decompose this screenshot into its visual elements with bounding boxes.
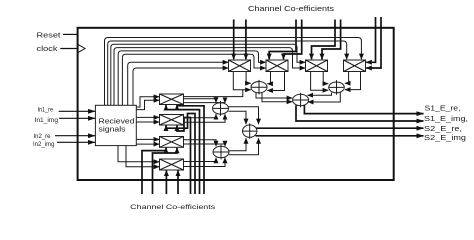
outer enclosure box [78,28,394,180]
svg-text:Channel Co-efficients: Channel Co-efficients [130,204,216,211]
svg-text:Channel Co-efficients: Channel Co-efficients [248,4,334,13]
wire A2 out a to A3 [308,93,332,96]
clock input triangle [78,45,85,53]
bottom coefficient riser to M8 a [165,170,167,194]
wire M3 out b to A2 [323,72,328,84]
coefficient drop wire h11a [233,20,235,60]
wire M4 out b to A2 [345,72,361,90]
wire A4 out a to A6 [229,107,259,124]
wire received to M8 b [126,146,159,167]
input wire In1_re [59,110,95,112]
coefficient drop wire h12b [284,20,302,60]
wire clock [60,48,77,50]
multiplier M2 [266,60,288,72]
svg-text:In2_re: In2_re [34,133,51,140]
wire M5 out to A1 junction [184,90,243,97]
adder A2 [329,80,345,95]
wire A2 out b to A3 [308,93,340,102]
bottom coefficient riser to M7 a [142,148,166,194]
input wire In2_re [55,135,95,137]
svg-text:signals: signals [99,127,127,134]
wire received to M6 a [136,116,159,118]
wire M1 out a to A1 [233,72,250,90]
coefficient drop wire h22b [366,17,381,68]
svg-text:clock: clock [37,46,59,53]
wire received to M8 a [118,146,159,162]
bottom coefficient riser to M7 b [153,148,178,194]
wire M5 out a to A4 [184,99,217,103]
multiplier M7 [160,137,184,148]
received-signal bus wire n5 [118,51,266,105]
wire M3 out a to A2 [311,72,329,91]
bottom coefficient riser to M6 b [166,114,195,195]
multiplier M1 [229,60,251,72]
adder A6 [243,123,257,138]
wire M2 out a to A1 [267,72,270,84]
block Received signals [95,105,136,145]
coefficient drop wire h11b [245,20,247,60]
received-signal bus wire n6 [122,54,265,105]
svg-text:In1_img: In1_img [35,117,59,124]
svg-text:In1_re: In1_re [38,107,54,114]
svg-text:S2_E_img: S2_E_img [424,135,466,142]
adder A4 [213,101,229,116]
wire Reset [63,33,78,35]
adder A3 [293,93,309,108]
wire M4 out a to A2 [345,72,349,84]
svg-text:Recieved: Recieved [99,118,135,125]
wire received to M5 b [136,100,159,109]
wire received to M7 a [136,138,159,140]
wire M6 out a to A4 [184,114,217,118]
output wire S2_E_re [256,127,424,129]
wire received to M6 b [136,121,159,123]
wire M7 out b to A5 [184,144,226,146]
wire M2 out b to A1 [267,72,284,91]
multiplier M5 [160,94,184,105]
adder A5 [213,145,229,160]
wire M8 out a to A5 [184,158,217,162]
received-signal bus wire n4 [114,48,305,106]
wire M5 out b to A4 [184,102,226,104]
wire A5 out a to A6 [229,138,246,151]
bottom coefficient riser to M6 a [177,118,191,195]
wire M1 out b to A1 [246,72,251,84]
wire A1 out b to A3 [262,92,292,102]
output wire S2_E_img [256,135,424,137]
svg-text:Reset: Reset [37,33,61,40]
output wire S1_E_re [304,105,423,113]
multiplier M4 [344,60,366,72]
received-signal bus wire n1 [105,38,362,106]
wire M8 out b to A5 [184,158,226,167]
wire A4 out b to A6 [229,111,247,124]
received-signal bus wire n3 [111,44,305,105]
input wire In1_img [59,117,95,119]
coefficient drop wire h22a [366,17,375,62]
coefficient drop wire h12a [269,20,296,60]
bottom coefficient riser to M8 b [177,170,179,194]
wire M7 out a to A5 [184,140,217,147]
svg-text:S1_E_re,: S1_E_re, [425,105,461,112]
received-signal bus wire n8 [133,68,228,105]
coefficient drop wire h21b [322,20,341,60]
received-signal bus wire n7 [128,62,229,105]
input wire In2_img [57,141,95,143]
bottom coefficient riser to M5 b [177,105,204,194]
bottom coefficient riser to M5 a [166,105,200,194]
coefficient drop wire h21a [312,20,336,60]
adder A1 [251,80,267,95]
wire A5 out b to A6 [229,138,259,155]
multiplier M6 [160,115,184,126]
multiplier M8 [160,159,184,170]
wire received to M7 b [136,143,159,145]
svg-text:S2_E_re,: S2_E_re, [424,126,462,133]
multiplier M3 [306,60,328,72]
output wire S1_E_img [296,105,424,121]
wire M6 out b to A4 [184,114,226,122]
svg-text:S1_E_img,: S1_E_img, [424,116,468,123]
received-signal bus wire n2 [108,41,347,105]
wire A1 out a to A3 [256,92,292,98]
wire received to M5 a [136,97,159,107]
svg-text:In2_img: In2_img [33,141,55,148]
